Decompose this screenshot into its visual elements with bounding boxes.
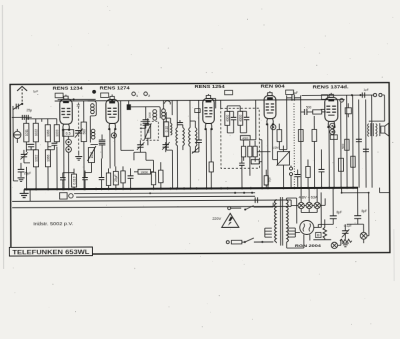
resistor R4 — [108, 172, 110, 174]
small filled box on wire — [127, 104, 131, 110]
IF coil in dashed box — [145, 124, 151, 138]
IF transformer loop pair b — [183, 128, 185, 146]
bias box V1 — [63, 130, 74, 137]
bus junction 14 — [122, 188, 124, 190]
antenna coil L1 1011 — [24, 123, 29, 142]
circle mark a below V1 — [66, 139, 72, 145]
bus junction 29 — [261, 187, 263, 189]
det coil L11 — [225, 111, 230, 125]
svg-text:10000: 10000 — [140, 170, 148, 174]
bottom cap b3 — [99, 177, 105, 179]
bus junction 13 — [115, 188, 117, 190]
fuse — [231, 240, 242, 244]
circle mark below V2 dot — [113, 135, 115, 137]
filter cap 8uF a — [330, 216, 337, 219]
bus junction 12 — [107, 188, 109, 190]
det cap C10 — [231, 117, 237, 119]
electrolytic circle cap — [14, 131, 21, 138]
bottom cap b3 wires — [100, 158, 102, 188]
bus junction 9 — [84, 188, 86, 190]
heater line 3 — [12, 200, 291, 201]
bottom res r1 wires — [107, 168, 109, 188]
sub-bus drop to dial lamp — [342, 188, 369, 236]
zigzag resistor vertical — [323, 227, 327, 238]
V5 bias box — [330, 135, 337, 140]
vertical rail x347 — [346, 95, 348, 188]
bottom cap b2 — [82, 178, 88, 180]
small boxed tag above V2 — [101, 93, 109, 98]
filter cap b wires — [357, 188, 359, 224]
svg-text:RENS 1234: RENS 1234 — [53, 86, 84, 91]
heater line dot c — [251, 192, 253, 194]
bus junction 0 — [25, 188, 27, 190]
IF pair3 wires — [190, 100, 196, 188]
mixer link wires — [131, 107, 160, 120]
svg-text:0.5: 0.5 — [66, 132, 71, 136]
volume pot wiper — [276, 151, 290, 166]
bus junction 25 — [220, 187, 222, 189]
mains wire to transformer — [254, 241, 273, 243]
coupling cap wires — [287, 97, 301, 99]
circle mark below V2 — [111, 133, 116, 138]
svg-text:8μF: 8μF — [336, 210, 342, 214]
bottom coil 0013 wires — [73, 169, 75, 189]
bus junction 1 — [35, 188, 37, 190]
mid trimmer arrow 2 — [162, 142, 170, 150]
vertical rail x353 — [352, 95, 354, 188]
resistor R17 — [345, 139, 349, 150]
tube V1 RENS 1234 — [60, 96, 73, 131]
vertical rail x341 — [340, 102, 342, 187]
svg-text:25μF: 25μF — [114, 174, 118, 181]
antenna trimmer arrow — [13, 104, 22, 110]
pilot lamp 3 — [314, 202, 320, 208]
pilot lamp rail — [291, 198, 325, 205]
dashed AVC line — [293, 104, 295, 188]
svg-text:1μF: 1μF — [363, 87, 368, 91]
mains transformer secondary winding — [286, 200, 288, 242]
bus junction 19 — [175, 187, 177, 189]
svg-text:1066: 1066 — [46, 154, 50, 161]
resistor R8 — [151, 172, 155, 185]
input coil L4 1033 — [54, 125, 59, 142]
antenna symbol — [17, 86, 27, 91]
lamp below rectifier — [331, 242, 337, 248]
border frame — [10, 83, 390, 255]
circle mark a dot — [68, 141, 70, 143]
svg-text:8μF: 8μF — [361, 209, 367, 213]
IF pair3 trimmer arrow — [192, 147, 200, 154]
detector output wire — [259, 140, 262, 189]
output terminal 2 — [379, 93, 382, 96]
svg-text:1μF: 1μF — [292, 91, 298, 95]
mains switch — [245, 238, 254, 242]
det resistor Rd3 — [253, 146, 257, 157]
cap at V3 grid — [196, 140, 202, 142]
top rail main — [55, 100, 345, 101]
resistor R7 10000 — [138, 169, 151, 174]
horizontal zigzag resistor — [340, 239, 352, 242]
bottom cap b2 wires — [84, 171, 86, 189]
V1 column wire — [68, 136, 70, 189]
gang cap ground — [75, 157, 82, 161]
tube V1 grid cap wire — [58, 95, 96, 100]
input series capacitor a — [22, 115, 24, 120]
right heater drops — [290, 200, 292, 206]
tube V2 legs — [110, 128, 115, 166]
tone cap C20 — [342, 231, 349, 234]
title box TELEFUNKEN 653WL — [9, 247, 92, 256]
V2 anode node — [111, 100, 113, 102]
V2 left leg lower — [109, 160, 111, 168]
det box 4000 b — [251, 160, 259, 164]
contact circle b — [290, 173, 293, 176]
bottom coil 0013 — [72, 174, 77, 187]
L1 L2 bottom wires — [26, 142, 36, 152]
L3 L4 top wires — [36, 119, 57, 125]
bus junction 32 — [293, 187, 295, 189]
bus junction 20 — [183, 187, 185, 189]
cap C7 wires — [129, 168, 131, 188]
heater line dot a — [234, 192, 236, 194]
bottom cap b1 wires — [62, 173, 64, 189]
bus right tail — [379, 188, 389, 193]
bus junction 33 — [300, 187, 302, 189]
transformer LV tap stubs left — [265, 228, 272, 237]
sub-bus dot a — [341, 192, 343, 194]
circle mark b below V1 — [66, 147, 72, 153]
R16 wires — [307, 159, 309, 187]
mixer spiral coil lower — [91, 129, 95, 139]
mid trimmer cap 2 — [162, 145, 168, 147]
vertical rail x366 — [365, 99, 367, 187]
bus junction 23 — [205, 187, 207, 189]
rectifier anode wires — [286, 198, 309, 248]
bus junction 35 — [313, 187, 315, 189]
IF coil wires — [147, 118, 149, 145]
det pair1 wires — [227, 106, 233, 133]
left decoupling wires — [20, 163, 22, 177]
svg-text:4000: 4000 — [239, 115, 243, 122]
bus junction 28 — [250, 187, 252, 189]
bus junction 6 — [68, 188, 70, 190]
bus junction 21 — [189, 187, 191, 189]
C20 arrow — [342, 229, 350, 237]
antenna coil L2 1022 — [33, 123, 38, 142]
svg-text:1022: 1022 — [34, 155, 38, 162]
bottom coil 25 wires — [115, 166, 117, 188]
IF transformer2 loop pair a — [189, 128, 191, 147]
tube V4 top — [269, 91, 271, 92]
gang cap dashed link — [77, 103, 79, 151]
mixer spiral coil upper — [91, 104, 95, 114]
svg-text:1/2M: 1/2M — [272, 146, 279, 150]
bus junction 37 — [328, 187, 330, 189]
bottom row link — [63, 173, 92, 178]
cap C15 — [319, 169, 325, 171]
IF pair2 top cap — [177, 123, 183, 125]
circle mark below V5 b dot — [331, 131, 333, 133]
heater line 4 — [12, 206, 291, 207]
AF load res wires — [265, 170, 267, 188]
small box tag below RENS1374d — [321, 95, 327, 100]
upper line terminal — [228, 207, 231, 210]
coupling cap C13 — [292, 95, 294, 101]
tube V5 RENS 1374d — [325, 94, 338, 128]
V5 grid hook — [321, 108, 325, 110]
input coil L3 1066 — [45, 125, 50, 142]
node above V1 — [73, 98, 75, 100]
R7 link wires — [134, 171, 153, 173]
terminal D2 — [144, 92, 148, 96]
bus junction 2 — [47, 188, 49, 190]
input series capacitor b — [26, 115, 28, 120]
cap under L4 stub — [48, 145, 55, 149]
bus left bend — [23, 189, 25, 193]
filter cap 8uF b — [354, 216, 361, 219]
svg-text:500: 500 — [306, 105, 312, 109]
contact circle a — [289, 167, 292, 170]
svg-text:220V: 220V — [212, 217, 221, 221]
bus junction 22 — [195, 187, 197, 189]
svg-text:4000: 4000 — [226, 115, 230, 122]
bus junction 30 — [267, 187, 269, 189]
left decoupling ground — [18, 178, 25, 182]
osc spiral coil B — [162, 109, 166, 120]
transformer LV tap stubs right — [288, 228, 295, 237]
det coil L12 — [238, 111, 243, 125]
det resistor Rd1 — [241, 146, 245, 157]
tube V2 RENS 1274 — [106, 96, 119, 130]
heater line dot b — [243, 192, 245, 194]
bus junction 39 — [340, 187, 342, 189]
antenna lead dot — [21, 103, 23, 105]
switch dot — [244, 241, 246, 243]
svg-text:0.10: 0.10 — [165, 126, 169, 132]
L5 L6 link wires — [48, 142, 57, 150]
R15 wires — [313, 116, 315, 188]
rectifier output wire — [314, 192, 322, 227]
gang capacitor C1 — [75, 131, 82, 134]
resistor R9 — [159, 170, 163, 183]
mid link horizontals — [121, 150, 146, 160]
triangle lightning bolt — [228, 216, 233, 225]
mixer loop wire — [88, 101, 97, 143]
pilot lamp 1 — [298, 202, 304, 208]
output transformer windings — [368, 124, 378, 137]
mains transformer primary winding — [274, 200, 276, 242]
variable padding coil — [88, 148, 94, 163]
vertical wire x301 — [300, 95, 302, 188]
cap C18 — [363, 149, 369, 151]
det pair2 wires — [240, 106, 246, 133]
cap near pot — [295, 175, 300, 177]
bottom right ground small — [342, 243, 349, 247]
tube V5 top — [330, 93, 332, 94]
cap under L4 — [51, 143, 57, 145]
sub-bus line right — [342, 192, 369, 194]
svg-text:1066: 1066 — [46, 129, 50, 136]
rectifier tube RGN 2004 — [300, 220, 314, 234]
svg-text:4.8V ÷ 63A: 4.8V ÷ 63A — [299, 195, 319, 199]
bus junction 16 — [152, 188, 154, 190]
tube V2 top cap wire — [111, 94, 113, 96]
wave band coil L6 1066 — [45, 150, 50, 167]
upper switch — [245, 206, 254, 210]
small box tag 60 — [195, 109, 201, 113]
misc mid wires — [166, 100, 172, 188]
mid trimmer arrow 1 — [137, 142, 145, 150]
resistor R15 — [312, 129, 317, 141]
tube V3 top wire — [207, 94, 209, 95]
small box right of V5 stub — [347, 103, 349, 117]
small box tag 6 — [286, 90, 294, 94]
wave band coil L5 1022 — [33, 150, 38, 167]
junction dot near top left — [92, 90, 96, 94]
contact wires — [290, 166, 292, 188]
tube V1 left leg — [63, 129, 65, 189]
V3 cathode resistor — [209, 162, 213, 172]
det cap low — [239, 163, 244, 165]
detector dashed box — [221, 108, 260, 168]
circle mark b dot — [68, 148, 70, 150]
vertical rail x372 — [371, 95, 373, 188]
cap C7 — [128, 176, 134, 178]
AF load resistor — [264, 176, 268, 185]
resistor R5 — [121, 171, 125, 183]
volume pot box — [277, 152, 289, 166]
main ground symbol — [20, 193, 29, 197]
rail dot b — [359, 94, 361, 96]
mains transformer core — [280, 197, 282, 246]
R13 wires — [279, 124, 287, 150]
IF pair coil a 010 — [164, 122, 169, 137]
mid trimmer cap 1 — [137, 145, 143, 147]
svg-text:1011: 1011 — [25, 129, 29, 136]
page bottom-right edge — [393, 229, 395, 281]
svg-text:1022: 1022 — [34, 129, 38, 136]
left border drop wire — [13, 106, 18, 181]
multi-plate cap lead — [140, 125, 146, 128]
heater junction dot — [149, 192, 151, 194]
svg-text:RENS 1274: RENS 1274 — [100, 85, 131, 90]
mains warning triangle — [222, 213, 239, 227]
resistor R16 — [306, 166, 310, 177]
svg-text:500: 500 — [268, 177, 272, 182]
tube V3 legs — [206, 128, 211, 188]
svg-text:25μ: 25μ — [27, 108, 33, 112]
C14 wires — [301, 111, 313, 113]
circle mark below V4 — [271, 125, 276, 130]
det box 4000 a — [240, 136, 250, 140]
ground bus thick — [24, 188, 358, 190]
vertical wire x287 — [286, 95, 288, 149]
R8 wires — [146, 160, 154, 189]
bus junction 7 — [73, 188, 75, 190]
L1 L2 top wires — [26, 117, 36, 123]
tube V4 REN 904 — [264, 93, 276, 126]
circle cap wires — [16, 129, 18, 143]
V3 grid link — [192, 142, 199, 152]
vertical wire x199 — [198, 100, 200, 140]
pilot lamp 2 — [306, 202, 312, 208]
IF pair wires — [166, 112, 170, 150]
IF transformer loop pair a — [176, 128, 178, 146]
bus junction 41 — [352, 187, 354, 189]
bottom res r1 — [106, 173, 110, 186]
svg-text:RGN 2004: RGN 2004 — [295, 244, 322, 248]
svg-text:4000: 4000 — [242, 136, 248, 140]
det box feeds — [221, 100, 256, 140]
R9 wires — [160, 162, 162, 188]
wire to filled box — [128, 101, 130, 105]
svg-text:RENS 1254: RENS 1254 — [195, 84, 226, 89]
coil B wires — [162, 100, 164, 137]
svg-text:500: 500 — [82, 129, 86, 135]
small boxed tag above V1 — [55, 93, 63, 98]
svg-text:1033: 1033 — [55, 129, 59, 136]
heater line 1 — [74, 192, 255, 195]
multi-plate capacitor — [143, 120, 149, 125]
variable coil strike — [87, 146, 96, 161]
page left edge — [2, 5, 3, 269]
upper switch wire — [254, 203, 274, 207]
tube V5 legs — [329, 126, 334, 188]
small box right of V5 — [345, 108, 351, 114]
resistor R14 — [299, 129, 304, 141]
C15 wires — [320, 149, 322, 187]
tone cap C16 — [362, 92, 364, 97]
osc spiral coil A — [153, 110, 157, 121]
svg-text:RENS 1374d.: RENS 1374d. — [313, 84, 349, 89]
bus junction 15 — [129, 188, 131, 190]
mid trimmer wires 2 — [165, 142, 167, 152]
svg-text:Indstr. 5002 p.V.: Indstr. 5002 p.V. — [33, 221, 73, 226]
left cap under L1L2 — [28, 144, 34, 146]
cap C17 — [356, 139, 362, 141]
det resistor Rd2 — [248, 146, 252, 157]
svg-text:TELEFUNKEN 653WL: TELEFUNKEN 653WL — [12, 249, 89, 256]
gang cap bottom — [78, 151, 80, 156]
left decoupling cap 25uF — [18, 169, 25, 172]
svg-text:0.013: 0.013 — [72, 176, 76, 184]
pilot lamp drops — [301, 188, 317, 213]
bus junction 5 — [63, 188, 65, 190]
svg-text:1μF: 1μF — [33, 89, 38, 93]
heater line capacitor — [255, 197, 257, 203]
GW box — [60, 193, 68, 199]
bus junction 27 — [241, 187, 243, 189]
wire x121 — [120, 101, 122, 151]
output transformer core — [371, 123, 374, 136]
bottom coil 25 — [113, 171, 118, 185]
bus junction 10 — [95, 188, 97, 190]
C20 wires — [344, 224, 346, 238]
det res wires — [242, 140, 271, 188]
bus junction 4 — [62, 188, 64, 190]
mid trimmer wires 1 — [134, 140, 146, 152]
paper speckle texture — [131, 54, 132, 55]
right rail corner — [383, 95, 385, 121]
tube V3 RENS 1254 — [203, 95, 215, 130]
speaker — [381, 123, 389, 136]
top right rail — [302, 94, 373, 96]
det cap C11 — [244, 117, 250, 119]
osc section coil 500 — [81, 122, 86, 142]
resistor R18 — [351, 156, 355, 167]
cap near pot wires — [297, 170, 299, 188]
bus junction 24 — [210, 187, 212, 189]
